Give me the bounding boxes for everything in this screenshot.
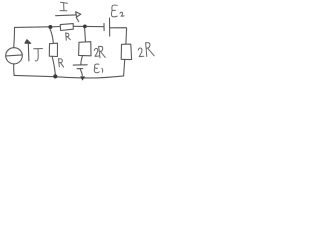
wire: source bottom to bottom rail [13,64,15,76]
node: junction dot bottom-left [53,74,57,78]
wire: top junction down to resistor R (left) [50,29,54,44]
node: junction dot mid-top [83,25,87,29]
label I (current, top) [60,2,68,11]
wire: E1 down to bottom rail [80,69,82,75]
label E2 [111,5,124,17]
arrow J (source current arrow) [25,40,31,61]
current source J (circle with bar) [6,48,23,64]
wire: top rail left segment [15,26,51,29]
wire: resistor R1 to mid junction [73,25,84,27]
wire: mid junction down to resistor 2R (middle) [84,28,87,42]
label R (top resistor) [66,33,71,40]
wire: bottom rail [14,75,124,78]
EMF source E1 (battery plates) [73,64,87,66]
wire: top rail to resistor R1 [52,26,60,28]
arrow I (direction arrow) [56,12,81,22]
label 2R (right) [138,43,154,57]
resistor 2R (vertical, right) [121,44,131,60]
wire: E2 to right corner, down to resistor 2R [110,28,127,44]
label J [34,49,43,61]
resistor 2R (vertical, middle) [79,42,91,56]
resistor R (horizontal, top) [60,24,73,31]
wire: resistor R to bottom rail [52,57,55,75]
node: junction dot left-top [48,25,52,29]
EMF source E2 (battery plates) [103,24,105,31]
label R (left resistor) [59,59,64,68]
wire: mid junction to E2 [87,25,104,27]
node: junction dot bottom-mid [80,76,85,80]
wire: resistor 2R down to bottom rail [124,60,125,76]
label E1 [94,64,102,73]
wire: resistor 2R middle down to E1 [81,56,83,65]
resistor R (vertical, left) [49,43,57,56]
wire: source top to top rail [13,28,16,48]
label 2R (middle) [94,46,105,58]
